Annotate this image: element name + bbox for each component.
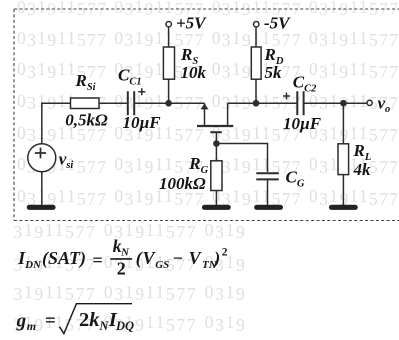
svg-text:10µF: 10µF (283, 114, 322, 133)
resistor RL (338, 144, 349, 175)
svg-text:V: V (189, 248, 203, 268)
wire: gate node down to RG (215, 144, 217, 161)
transistor M1 source arrow (201, 103, 209, 109)
ground below CG (257, 205, 281, 210)
svg-text:GS: GS (155, 259, 169, 271)
node C junction dot (340, 100, 347, 107)
svg-text:+5V: +5V (176, 14, 207, 33)
wire: node C down to RL (342, 103, 344, 144)
terminal -5V (254, 22, 259, 27)
transistor M1 source lead (204, 103, 206, 126)
wire: RSi to CC1 (99, 102, 127, 104)
wire: RD column (255, 27, 257, 103)
wire: gate node to CG (216, 144, 267, 173)
equation 1: IDN(SAT) = kN/2 (VGS - VTN)^2 (17, 236, 228, 278)
svg-text:RSi: RSi (75, 71, 96, 93)
resistor RSi (71, 98, 100, 109)
svg-text:N: N (120, 247, 130, 259)
svg-text:10µF: 10µF (123, 113, 162, 132)
resistor RG (211, 161, 222, 191)
wire: vsi to ground (41, 172, 43, 205)
svg-text:100kΩ: 100kΩ (159, 174, 206, 193)
svg-text:): ) (212, 248, 220, 269)
svg-text:RG: RG (188, 154, 208, 176)
transistor M1 drain lead (227, 103, 229, 126)
transistor M1 gate lead (215, 132, 217, 143)
svg-text:-5V: -5V (264, 14, 291, 33)
node G junction dot (213, 140, 220, 147)
svg-text:m: m (27, 319, 36, 333)
svg-text:2: 2 (117, 258, 126, 278)
capacitor CC2 plus sign (283, 93, 290, 100)
capacitor CG (256, 173, 279, 179)
node B junction dot (253, 100, 260, 107)
resistor RD (251, 47, 261, 79)
svg-text:vo: vo (378, 93, 391, 115)
svg-text:10k: 10k (181, 63, 207, 82)
source vsi plus sign (35, 148, 46, 159)
ground below vsi (29, 205, 53, 210)
wire: CC2 to vo (through node C) (304, 102, 367, 104)
ground below RG (205, 205, 229, 210)
svg-text:4k: 4k (353, 160, 372, 179)
svg-text:CC2: CC2 (293, 73, 317, 95)
wire: RS column (168, 27, 170, 103)
terminal vo (367, 100, 372, 105)
capacitor CC1 plus sign (138, 88, 145, 95)
svg-text:5k: 5k (265, 63, 283, 82)
transistor M1 channel bar (197, 125, 233, 127)
wire: RG to ground (215, 191, 217, 206)
wire: CC1 to transistor source (through node A) (134, 102, 204, 104)
resistor RS (163, 47, 174, 79)
ground below RL (332, 205, 356, 210)
wire: vsi top to RSi (42, 103, 71, 144)
equation 2: gm = sqrt(2 kN IDQ) (16, 304, 134, 334)
svg-text:vsi: vsi (59, 150, 74, 172)
capacitor CC2 (297, 91, 303, 115)
terminal +5V (166, 22, 171, 27)
svg-text:(SAT): (SAT) (42, 248, 86, 269)
wire: CG to ground (267, 179, 269, 205)
transistor M1 gate bar (210, 131, 222, 133)
svg-text:−: − (173, 248, 183, 268)
svg-text:g: g (16, 310, 27, 331)
svg-text:=: = (45, 310, 56, 331)
svg-text:0,5kΩ: 0,5kΩ (65, 111, 108, 130)
wire: RL to ground (342, 175, 344, 205)
svg-text:N: N (98, 319, 109, 333)
svg-text:2k: 2k (79, 309, 100, 331)
svg-text:=: = (93, 250, 103, 270)
source vsi circle (28, 144, 56, 172)
svg-text:CC1: CC1 (118, 65, 142, 87)
svg-text:DQ: DQ (115, 319, 134, 333)
svg-text:2: 2 (222, 246, 228, 258)
capacitor CC1 (128, 91, 134, 115)
node A junction dot (165, 100, 172, 107)
wire: drain to CC2 (through node B) (228, 102, 297, 104)
svg-text:CG: CG (286, 167, 305, 189)
svg-text:IDN: IDN (17, 248, 42, 271)
